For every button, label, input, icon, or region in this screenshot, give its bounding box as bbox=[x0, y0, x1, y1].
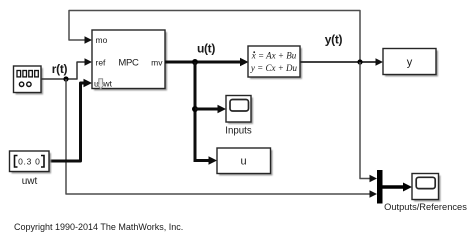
svg-text:x = Ax + Bu: x = Ax + Bu bbox=[251, 51, 297, 61]
wire y(t) down to mux input 1 bbox=[360, 62, 377, 182]
junction u(t) bbox=[192, 59, 198, 65]
svg-text:y(t): y(t) bbox=[325, 33, 343, 47]
svg-text:y: y bbox=[407, 57, 413, 69]
svg-text:u: u bbox=[240, 156, 246, 168]
svg-text:r(t): r(t) bbox=[52, 62, 68, 76]
wire feedback y(t) to mo bbox=[69, 11, 360, 63]
block signal editor (r source) bbox=[14, 66, 44, 95]
svg-text:uwt: uwt bbox=[22, 176, 38, 187]
junction u(t) scope branch bbox=[192, 106, 198, 112]
wire branch to u outport bbox=[195, 156, 217, 165]
svg-text:u(t): u(t) bbox=[197, 42, 215, 56]
block Inputs scope bbox=[226, 96, 253, 125]
junction r(t) bbox=[63, 76, 68, 81]
svg-text:0.3 0: 0.3 0 bbox=[18, 157, 40, 167]
svg-text:mo: mo bbox=[96, 35, 108, 45]
block Outputs/References scope bbox=[412, 174, 441, 202]
wire uwt constant to u.wt port bbox=[49, 79, 92, 161]
wire mux to Outputs scope bbox=[383, 183, 413, 192]
svg-text:Copyright 1990-2014 The MathWo: Copyright 1990-2014 The MathWorks, Inc. bbox=[14, 222, 183, 232]
block u outport bbox=[217, 148, 273, 176]
svg-text:Outputs/References: Outputs/References bbox=[384, 202, 467, 212]
block MPC controller bbox=[92, 30, 167, 91]
block state-space bbox=[248, 46, 302, 79]
svg-text:mv: mv bbox=[151, 58, 163, 68]
wire r to ref port bbox=[41, 58, 92, 79]
wire r down to bottom / mux input 2 bbox=[66, 79, 377, 198]
wire mv to state-space (u(t) signal) bbox=[165, 58, 249, 67]
icon u.wt gray arrow badge bbox=[97, 79, 104, 89]
svg-text:ref: ref bbox=[96, 58, 107, 68]
mux bbox=[377, 170, 383, 204]
wire branch to Inputs scope bbox=[195, 105, 226, 114]
svg-text:Inputs: Inputs bbox=[225, 126, 252, 137]
block y outport bbox=[383, 49, 438, 77]
svg-text:MPC: MPC bbox=[118, 58, 139, 69]
wire state-space output y(t) to y outport bbox=[300, 58, 383, 65]
wire u(t) down trunk bbox=[194, 62, 197, 162]
block uwt constant bbox=[10, 151, 52, 174]
svg-text:y = Cx + Du: y = Cx + Du bbox=[250, 63, 298, 73]
junction y(t) bbox=[357, 59, 362, 64]
